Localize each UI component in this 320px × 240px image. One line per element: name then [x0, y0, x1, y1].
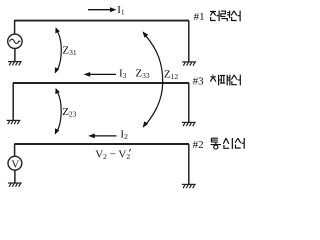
Korean glyph 신 [223, 138, 232, 149]
svg-text:Z31: Z31 [62, 45, 76, 58]
coupling arc Z12 (big double arrow from line1 to line2 crossing line3) [142, 31, 162, 128]
Korean glyph 통 [211, 138, 221, 149]
wire: line #3 shield line horizontal [13, 82, 189, 84]
Korean glyph 차 [210, 75, 220, 86]
Korean glyph 선 [231, 75, 240, 86]
wire: AC source to ground G1 [14, 48, 16, 61]
svg-text:#2: #2 [193, 139, 204, 151]
coupling arc Z31 (double arrow between line1 and line3) [55, 27, 62, 73]
wire: line2 right drop to ground G6 [188, 144, 190, 184]
wire: line1 right drop to ground G2 [188, 21, 190, 62]
AC source G (circle with sine) [8, 34, 22, 48]
svg-text:I1: I1 [117, 4, 125, 17]
wire: voltmeter to ground G5 [14, 170, 16, 183]
ground G3 left end of line3 [7, 120, 21, 124]
wire: line #2 communication line horizontal [14, 143, 189, 145]
svg-text:V: V [11, 159, 19, 171]
svg-text:I3: I3 [119, 68, 127, 81]
ground G1 below AC source [8, 62, 22, 66]
coupling arc Z23 (double arrow between line3 and line2) [55, 88, 61, 135]
svg-text:Z12: Z12 [164, 68, 178, 81]
current arrow I1 (right) [88, 7, 117, 12]
Korean glyph 선 [235, 138, 244, 149]
svg-text:Z33: Z33 [135, 68, 149, 81]
wire: line1 left drop to AC source [14, 21, 16, 35]
voltmeter V (circle) [8, 156, 22, 170]
svg-text:Z23: Z23 [62, 106, 76, 119]
ground G2 right end of line1 [182, 62, 196, 66]
current arrow I2 (left) [88, 134, 116, 139]
wire: line3 left drop to ground G3 [12, 83, 14, 120]
ground G4 right end of line3 [182, 122, 196, 126]
wire: line3 right drop to ground G4 [188, 83, 190, 122]
ground G6 right end of line2 [182, 184, 196, 188]
ground G5 below voltmeter [8, 183, 22, 187]
Korean glyph 전 [210, 11, 219, 22]
Korean glyph 선 [231, 11, 240, 22]
wire: line2 left drop to voltmeter [14, 144, 16, 156]
svg-text:#3: #3 [193, 76, 205, 88]
svg-text:#1: #1 [194, 11, 205, 23]
svg-text:V2 − V2: V2 − V2 [95, 149, 130, 162]
wire: line #1 power line horizontal [14, 20, 189, 22]
current arrow I3 (left) [84, 72, 116, 77]
svg-text:I2: I2 [120, 129, 128, 142]
Korean glyph 폐 [220, 75, 230, 86]
Korean glyph 력 [221, 11, 230, 22]
